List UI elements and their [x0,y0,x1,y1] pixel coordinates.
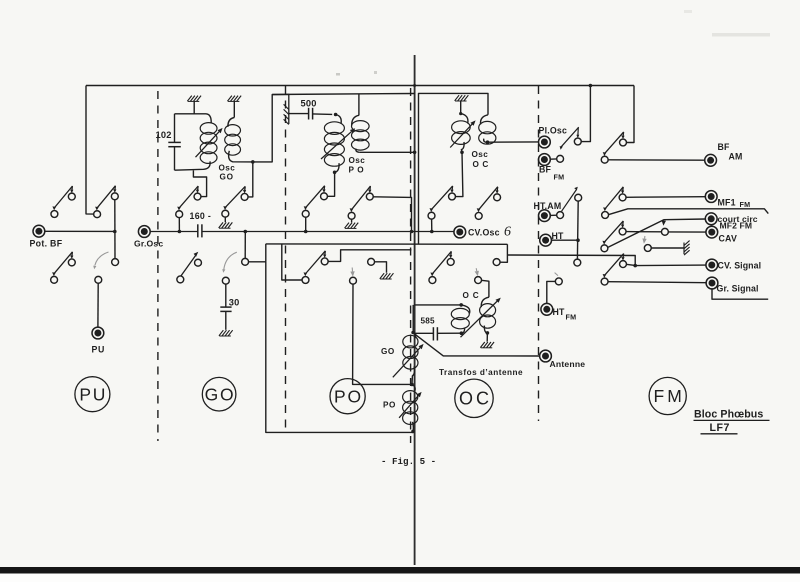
switch OC a2 (upper right, open) [475,187,500,220]
label CV. Signal [718,261,762,271]
wire: OC secondary to Pl.Osc [488,141,539,143]
node: top bus / crease crossing [413,84,416,87]
svg-text:6: 6 [504,225,511,240]
selector arrow (faint) OC [475,268,479,276]
svg-text:Transfos d’antenne: Transfos d’antenne [439,368,523,377]
section circle FM [649,377,686,414]
wire: PU terminal riser [97,283,99,327]
inductor Osc PO secondary coil [352,115,370,152]
wire+ground OC ant secondary [480,333,494,348]
switch GO b (upper right) [222,186,248,217]
node: antenna column bottom [411,430,415,434]
switch FM b (MF1) [602,187,626,219]
node: OC primary top [459,112,462,115]
terminal Pot.BF [33,225,45,237]
inductor Osc OC primary coil [452,114,471,153]
wire: OC oscillator frame [419,93,489,244]
section separator OC/FM (dashed) [538,86,540,421]
svg-text:CAV: CAV [719,234,738,244]
terminal BF AM [705,154,717,166]
switch PO c (inner) [302,251,328,284]
scan smudge top right [336,10,770,76]
selector arrow (faint) PO [350,268,354,277]
terminal BF FM [539,154,551,166]
inductor Osc GO secondary coil [225,118,253,162]
node: PO b drop / bus junction [410,230,414,234]
svg-text:PU: PU [79,384,107,404]
wire: FM d to CAV [668,231,706,233]
wire: OC mid rail right [500,244,508,262]
label Bloc Phoebus [694,409,770,421]
label 500 [301,98,317,108]
wire: OC switch a to bus [431,219,433,232]
svg-text:HT.AM: HT.AM [534,201,562,211]
variable-core arrow antenna GO coil [393,344,424,377]
svg-text:500: 500 [301,98,317,108]
label Osc PO [349,156,366,175]
wire: OC rail to FM bus [507,255,635,266]
wire: FM centre riser [576,201,579,260]
section separator PO/OC (dashed) [410,88,412,443]
inductor OC antenna primary (horizontal loops) [451,305,469,333]
label CAV [719,234,738,244]
page fold crease (vertical) [414,55,416,565]
wire: PO secondary top [358,94,360,116]
inductor OC antenna secondary (vertical) [480,297,496,333]
capacitor C 30 to ground [220,284,231,330]
switch FM a (BF) [601,132,626,163]
node: antenna column mid [410,383,414,387]
svg-text:LF7: LF7 [710,422,730,434]
section separator PU/GO (dashed) [157,91,159,441]
terminal Gr.Signal [706,277,718,289]
node: HT / riser junction [576,238,580,242]
contact GO d (mid, to 30pF) [222,277,229,284]
switch FM c (court circuit) [601,221,626,252]
wire: PO inner feed [282,244,303,280]
wire: antenna column top stub [412,305,414,333]
section separator GO/PO (dashed) [285,86,287,430]
wire: GO tank bottom to switch feed [193,170,206,196]
svg-text:AM: AM [729,151,743,161]
label court circ [718,214,758,224]
node: PO secondary / crease [413,151,417,155]
wire: FM f upper to CV.Signal [626,264,706,265]
svg-text:Antenne: Antenne [550,359,586,369]
node: OC a / bus junction [430,230,434,234]
terminal HT [540,234,552,246]
label Pl.Osc [539,125,568,135]
node: PO a / bus junction [304,230,308,234]
label PO (antenna) [383,400,396,409]
label Pot. BF [30,239,63,249]
wire: PO secondary bottom to crease [359,151,414,153]
svg-text:FM: FM [566,313,577,322]
svg-text:30: 30 [229,297,240,307]
svg-text:Osc: Osc [349,156,366,165]
wire: HT FM link [547,281,556,303]
svg-text:MF1: MF1 [718,198,736,208]
variable-core arrow through Osc PO [321,128,355,159]
capacitor C 102 (tank) [168,114,181,170]
mark (faint) near HT FM [555,273,558,276]
wire: FM f lower to Gr.Signal [608,282,707,283]
contact HT FM feed [555,278,562,285]
switch PU a (upper left, open) [51,186,75,217]
ground (chassis) PO e [380,273,394,279]
wire: OC primary riser to switch [455,152,463,196]
label PU [92,345,105,355]
wire: PU switch b riser to bus [114,200,116,259]
label Osc GO [219,164,236,182]
node: OC ant secondary bottom [486,331,490,335]
node: 500 / PO primary top [334,113,338,117]
contact Pl.Osc [574,138,581,145]
wire: GO switch a to bus [178,217,180,231]
label OC (antenna transformer) [463,291,480,300]
wire: GO osc to PO osc link [253,94,289,161]
wire: PO oscillator top rail [272,94,414,95]
switch GO a (upper left) [176,186,201,218]
node: PO primary bottom [333,171,337,175]
switch PO a (upper left) [302,186,327,218]
inductor Osc GO primary coil [175,114,218,170]
contact HT.AM link [550,212,564,219]
label Fig. 5 [381,456,436,467]
scan edge bottom bar [0,567,800,582]
contact PO e (to ground) [368,258,375,265]
wire: FM c upper to CAV contact [626,231,662,233]
selector arrow (faint) PU [93,252,108,269]
variable-core arrow through Osc GO [196,128,223,157]
label Gr.Osc [134,239,163,249]
mark: small arrow on court circ wire [662,220,666,226]
contact FM d (CAV) [661,228,668,235]
contact GO e (on riser) [242,258,249,265]
node: OC secondary bottom [486,140,490,144]
label Osc OC [472,150,489,169]
wire: PO selector frame [266,244,413,433]
wire: PU feed drop from top bus [86,86,94,215]
label HT [552,231,565,241]
ground (chassis) below PO switch b [345,219,359,228]
inductor antenna PO coil [403,385,418,432]
node: OC ant primary top [459,303,463,307]
terminal CV.Osc [454,226,466,238]
wire: PO switch b output to bus drop [373,197,412,232]
switch PU b (upper right) [94,186,119,218]
variable-core arrow through OC ant transformer [461,298,501,338]
inductor Osc OC secondary coil [479,115,496,144]
svg-text:Pot. BF: Pot. BF [30,239,63,249]
svg-text:MF2 FM: MF2 FM [720,221,753,231]
label 6 (handwritten) [504,225,511,240]
terminal HT FM [541,303,553,315]
svg-text:Gr. Signal: Gr. Signal [717,284,759,294]
svg-text:HT: HT [553,307,566,317]
contact PU d (lower mid) [95,276,102,283]
terminal Pl.Osc [539,136,551,148]
wire: PO d to antenna PO coil [353,284,411,385]
svg-text:GO: GO [381,347,395,356]
section circle PU [75,377,110,412]
contact BF FM link [550,155,564,162]
ground (chassis) FM e [684,241,690,256]
wire: FM b lower to right edge [608,209,768,215]
terminal CV.Signal [706,259,718,271]
label 102 [156,130,172,140]
svg-text:CV.Osc: CV.Osc [468,228,500,238]
switch FM f (CV.Signal) [601,254,626,286]
svg-text:Osc: Osc [472,150,489,159]
contact OC c [493,259,500,266]
label HT FM [553,307,577,321]
terminal Gr.Osc [138,226,150,238]
label BF / AM [718,142,743,161]
svg-text:O C: O C [463,291,480,300]
wire: FM a to BF AM [608,159,705,161]
svg-text:BF: BF [539,165,552,175]
svg-text:OC: OC [459,389,492,409]
capacitor C 585 [413,327,461,340]
contact PU e (on riser) [112,259,119,266]
svg-text:GO: GO [220,173,234,182]
svg-text:585: 585 [421,316,436,325]
terminal PU [92,327,104,339]
svg-text:FM: FM [740,200,751,209]
label LF7 [701,422,738,434]
node: antenna column top [411,331,415,335]
section circle OC [455,379,493,417]
label Gr. Signal [717,284,759,294]
svg-text:GO: GO [205,384,236,404]
label Transfos d'antenne [439,368,523,377]
variable-core arrow antenna PO coil [399,392,422,418]
wire: GO secondary riser to switch [248,162,253,197]
node: OC primary bottom [460,151,464,155]
switch OC a (upper) [428,186,455,219]
switch Pl.Osc arm [560,127,580,150]
svg-text:Pl.Osc: Pl.Osc [539,125,568,135]
svg-text:P O: P O [349,166,365,175]
label BF / FM [539,165,564,182]
svg-text:FM: FM [654,386,685,406]
wire: bus Gr.Osc to capacitor 160 [150,231,198,233]
terminal HT.AM [539,210,551,222]
terminal CAV [706,226,718,238]
svg-text:FM: FM [554,173,565,182]
svg-text:Osc: Osc [219,164,236,173]
svg-text:Gr.Osc: Gr.Osc [134,239,163,249]
wire: FM a to top bus [626,86,634,143]
ground (chassis) below C30 [219,330,233,336]
terminal Antenne [540,350,552,362]
svg-text:PO: PO [334,386,363,406]
wire: GO e riser to bus [244,232,246,259]
selector arrow (faint) FM e [642,236,646,244]
ground (chassis) OC oscillator [455,95,469,113]
wire: HT to riser [551,239,578,241]
section circle GO [202,377,236,411]
svg-text:160 -: 160 - [190,211,212,221]
label 160 [190,211,212,221]
svg-text:- Fig. 5 -: - Fig. 5 - [381,456,436,467]
wire: PO switch a to bus [305,217,307,232]
wire: Gr.Signal hook [712,289,768,300]
wire: Pl.Osc riser to top bus [581,86,591,142]
wire: top bus [86,85,634,87]
switch OC b (mid, open) [429,251,454,283]
wire: OC d to OC ant secondary [481,280,489,297]
wire: lower rail (PO frame top to OC) [266,243,508,245]
label HT.AM [534,201,562,211]
node: CV.Signal junction [633,264,637,268]
capacitor C 160 (series in bus) [198,224,202,237]
wire: GO tank top [175,113,207,115]
inductor antenna GO coil [403,333,418,385]
node: GO e / bus junction [244,230,248,234]
contact PO d (to PO ant. coil) [350,277,357,284]
label MF1 / FM [718,198,751,210]
terminal MF1 [705,191,717,203]
label 585 [421,316,436,325]
selector arrow (faint) GO [222,252,237,273]
node: OC ant primary bottom [460,331,464,335]
variable-core arrow through Osc OC [450,120,475,147]
svg-text:CV. Signal: CV. Signal [718,261,762,271]
svg-text:Bloc Phœbus: Bloc Phœbus [694,409,763,421]
wire: FM b to MF1 [626,196,706,199]
ground (chassis) GO secondary [227,96,241,118]
switch GO c (mid left, open) [177,252,202,283]
label Antenne [550,359,586,369]
ground (chassis) GO primary [187,96,201,114]
capacitor C 500 [289,108,332,120]
inductor Osc PO primary coil [324,115,344,173]
contact FM e (to chassis) [644,245,651,252]
terminal court circ [705,213,717,225]
svg-text:O C: O C [473,160,489,169]
node: GO secondary / riser junction [251,160,255,164]
svg-text:PU: PU [92,345,105,355]
section circle PO [330,379,365,414]
wire: GO e to PO frame [248,261,266,263]
wire: FM e to chassis [651,247,684,249]
wire: bus Pot.BF to junction [45,230,115,232]
svg-text:102: 102 [156,130,172,140]
wire: antenna input diagonal [413,333,540,356]
switch HT.AM arm (up) [562,187,578,211]
label GO (antenna) [381,347,395,356]
label CV.Osc [468,228,500,238]
switch PU c (lower left, open) [51,252,76,283]
label 30 [229,297,240,307]
wire: PO primary riser to switch [327,172,334,196]
contact OC d (sec. top) [475,277,482,284]
node: PU riser / bus junction [113,230,117,234]
ground (chassis) below GO switch b [219,217,233,228]
switch PO b (upper right) [348,186,373,219]
ground (chassis hatch) on PO rail [284,94,289,125]
wire: OC ant primary top feed [414,304,461,306]
wire: PO e to ground [374,262,386,273]
node: GO a / bus junction [178,230,182,234]
node: top bus / Pl.Osc riser junction [589,84,593,88]
wire: main bus 160 to CV.Osc [202,231,454,233]
contact FM centre lower [574,259,581,266]
svg-text:PO: PO [383,400,396,409]
contact HT.AM upper [575,194,582,201]
wire: PO switch c output [328,250,412,262]
wire: FM c lower to court circ [608,219,706,248]
label MF2 FM [720,221,753,231]
